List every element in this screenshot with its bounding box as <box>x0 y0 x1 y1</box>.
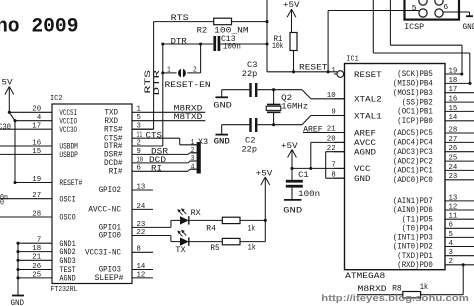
svg-text:+5V: +5V <box>256 169 273 179</box>
svg-text:AVCC-NC: AVCC-NC <box>88 205 121 215</box>
svg-text:GND: GND <box>463 22 474 32</box>
svg-text:10k: 10k <box>272 41 284 51</box>
svg-text:VCC3I-NC: VCC3I-NC <box>85 248 121 258</box>
svg-text:16MHz: 16MHz <box>281 101 308 111</box>
svg-text:3: 3 <box>191 155 195 163</box>
svg-text:RTS: RTS <box>171 13 189 23</box>
svg-text:IC2: IC2 <box>50 95 63 103</box>
svg-text:ATMEGA8: ATMEGA8 <box>345 272 385 281</box>
svg-text:R5: R5 <box>210 243 219 253</box>
svg-text:ICSP: ICSP <box>404 22 424 32</box>
svg-text:R4: R4 <box>206 223 216 233</box>
svg-text:1: 1 <box>167 66 171 74</box>
svg-text:OSCO: OSCO <box>59 213 75 223</box>
svg-text:5V: 5V <box>2 78 14 88</box>
svg-text:TX: TX <box>175 245 185 255</box>
svg-text:(RXD)PD0: (RXD)PD0 <box>397 260 433 270</box>
svg-text:0: 0 <box>0 197 4 207</box>
svg-text:RI: RI <box>151 164 162 174</box>
svg-text:1k: 1k <box>248 242 256 252</box>
svg-text:GND: GND <box>354 174 371 184</box>
svg-text:http://iteyes.blog.sohu.com: http://iteyes.blog.sohu.com <box>321 293 469 303</box>
svg-text:GND: GND <box>11 298 25 306</box>
svg-text:R2: R2 <box>197 25 208 35</box>
svg-text:6: 6 <box>443 4 448 12</box>
svg-text:X3: X3 <box>198 137 208 147</box>
svg-text:22p: 22p <box>242 69 257 79</box>
svg-text:1k: 1k <box>420 282 429 292</box>
svg-text:DTR: DTR <box>153 70 162 96</box>
svg-text:GND: GND <box>283 205 302 215</box>
svg-text:M8TXD: M8TXD <box>174 112 203 122</box>
svg-text:(ADC0)PC0: (ADC0)PC0 <box>393 175 433 185</box>
svg-text:RTS: RTS <box>144 70 153 94</box>
svg-text:OSCI: OSCI <box>59 194 75 204</box>
svg-text:+5V: +5V <box>283 0 300 10</box>
svg-text:no 2009: no 2009 <box>0 16 79 39</box>
svg-text:1k: 1k <box>248 223 256 233</box>
svg-text:AGND: AGND <box>59 274 75 284</box>
svg-text:+5V: +5V <box>281 141 298 151</box>
svg-text:VCC: VCC <box>354 164 371 174</box>
svg-text:AREF: AREF <box>303 124 323 134</box>
svg-text:5: 5 <box>412 5 417 13</box>
svg-text:C1: C1 <box>298 170 309 180</box>
svg-text:RESET-EN: RESET-EN <box>165 80 211 90</box>
svg-text:USBDP: USBDP <box>59 150 78 160</box>
svg-text:(ICP)PB0: (ICP)PB0 <box>397 116 433 126</box>
svg-text:AGND: AGND <box>354 148 376 158</box>
svg-text:XTAL1: XTAL1 <box>354 111 382 121</box>
svg-text:100n: 100n <box>223 42 241 52</box>
svg-text:SLEEP#: SLEEP# <box>95 273 124 283</box>
svg-text:2: 2 <box>191 147 195 155</box>
svg-text:GPIO2: GPIO2 <box>99 185 121 195</box>
svg-text:FT232RL: FT232RL <box>51 286 78 294</box>
svg-text:RESET: RESET <box>299 62 328 72</box>
svg-text:100n: 100n <box>298 189 320 199</box>
svg-text:IC1: IC1 <box>346 56 359 64</box>
svg-text:DTR: DTR <box>171 36 187 46</box>
svg-text:4: 4 <box>191 163 195 171</box>
svg-text:22p: 22p <box>242 144 258 154</box>
svg-text:GND: GND <box>214 137 230 147</box>
svg-text:RESET: RESET <box>354 70 382 80</box>
svg-text:VCC3O: VCC3O <box>59 125 77 135</box>
svg-text:RESET#: RESET# <box>59 178 82 188</box>
svg-text:RX: RX <box>191 208 201 218</box>
svg-text:1: 1 <box>191 139 195 147</box>
svg-text:RI#: RI# <box>109 167 123 177</box>
svg-text:GPIO0: GPIO0 <box>99 231 121 241</box>
svg-text:AREF: AREF <box>354 128 376 138</box>
svg-text:2: 2 <box>193 66 197 74</box>
svg-text:XTAL2: XTAL2 <box>354 95 382 105</box>
svg-text:GND: GND <box>213 101 232 111</box>
svg-text:CTS: CTS <box>146 130 163 140</box>
svg-text:C30: C30 <box>0 122 11 132</box>
